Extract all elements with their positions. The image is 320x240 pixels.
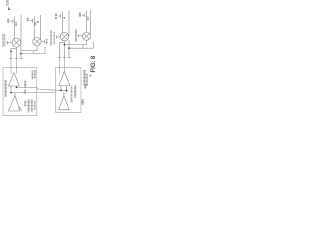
amplifier triangle T3 — [59, 72, 70, 86]
transistor Q3 label — [55, 14, 57, 16]
W6 riser — [92, 43, 94, 49]
wire W6 — [69, 47, 93, 49]
rail from Q1 to mixer M1 — [20, 15, 22, 43]
mixer M3 output stem — [64, 41, 66, 57]
T1 output stub b — [16, 86, 18, 87]
box A1 mid label lower — [24, 90, 26, 95]
terminal bar mid — [63, 57, 66, 59]
rail from Q2 to mixer M2 — [40, 15, 42, 40]
mixer M3 X — [62, 34, 68, 40]
junction dot — [16, 87, 18, 89]
amplifier triangle T4 — [59, 96, 70, 110]
mixer M1 input wire — [7, 42, 12, 44]
wire W1 — [21, 50, 37, 52]
mixer M2 X — [34, 39, 40, 45]
label 100 leader arrow — [8, 6, 10, 10]
box A1 bottom label col3 — [31, 100, 33, 113]
mixer M3 input terminal bar — [55, 35, 57, 38]
amplifier box A2 — [56, 68, 81, 113]
transistor Q4 channel — [86, 11, 88, 33]
box A1 left label — [5, 80, 7, 97]
mixer M4 input wire — [79, 35, 83, 37]
junction dot on rail — [20, 53, 22, 55]
transistor Q1 gate lead — [10, 20, 13, 22]
transistor Q3 source tick — [63, 17, 65, 19]
W2 terminal tick — [44, 47, 46, 49]
rail from Q3 to mixer M3 — [68, 11, 70, 37]
junction dot — [60, 90, 62, 92]
box A1 mid label upper — [24, 81, 26, 89]
amplifier box A1 — [3, 68, 37, 116]
branch vertical — [10, 48, 12, 58]
small label right of box — [84, 84, 86, 88]
terminal bar rail — [20, 58, 23, 60]
Q2 tick label — [34, 23, 36, 26]
Q4 tick label — [87, 18, 89, 21]
transistor Q4 gate bar — [84, 13, 86, 17]
mixer M2 terminal bar — [44, 40, 46, 44]
box A1 upper-right label col1 — [32, 71, 34, 80]
transistor Q4 gate lead — [82, 14, 85, 16]
stem branch horizontal — [11, 47, 17, 49]
mixer M4 circle — [82, 32, 90, 40]
wire W2 — [21, 53, 45, 55]
wire W5 — [65, 44, 87, 46]
mixer M4 X — [84, 33, 90, 39]
svg-text:FIG. 8: FIG. 8 — [91, 55, 96, 72]
mixer M4 input label — [75, 29, 77, 42]
amplifier triangle T1 — [9, 73, 20, 87]
svg-text:100: 100 — [6, 0, 10, 5]
junction dot — [10, 50, 12, 52]
target beacon label col1 — [83, 70, 85, 85]
junction dot — [10, 92, 12, 94]
transistor Q1 label — [7, 19, 9, 23]
mixer M1 X — [13, 40, 19, 46]
W6 terminal tick — [93, 42, 95, 44]
mixer M1 circle — [12, 38, 21, 47]
mixer M3 input wire — [56, 36, 60, 38]
box A1 input wire a — [10, 59, 12, 74]
mixer M1 output stem — [16, 47, 18, 58]
transistor Q4 source tick — [87, 16, 89, 18]
box A1 bottom label col2 — [28, 100, 30, 113]
small mark below FIG. 8 — [90, 75, 92, 77]
W1 jog — [33, 51, 35, 54]
mixer M3 input label — [50, 30, 52, 46]
box A1 upper-right label col2 — [34, 70, 36, 78]
transistor Q1 source tick — [15, 22, 18, 24]
rail from Q4 to mixer M4 — [90, 10, 92, 34]
wire W4 lower interstage — [11, 92, 56, 94]
transistor Q2 gate lead — [29, 20, 32, 22]
mixer M2 circle — [33, 37, 41, 45]
T3 output stub a — [60, 86, 62, 91]
mixer M3 circle — [60, 32, 69, 41]
branch vertical — [59, 42, 61, 57]
triangle T2 input stub — [14, 93, 16, 96]
terminal bar mid — [15, 58, 18, 60]
terminal bar left — [10, 58, 13, 60]
W2 riser — [44, 48, 46, 54]
mixer M1 input label — [2, 33, 3, 47]
mixer M2 terminal label — [46, 39, 48, 44]
T1 output stub a — [10, 86, 12, 93]
transistor Q2 label — [27, 18, 29, 22]
wire W3 upper interstage — [17, 87, 67, 90]
transistor Q3 gate bar — [60, 14, 62, 18]
mixer M4 stem — [86, 40, 88, 44]
T2 output diagonal — [19, 107, 22, 111]
junction dot — [64, 44, 66, 46]
target beacon label col2 — [86, 74, 88, 87]
transistor Q2 gate bar — [32, 19, 34, 23]
terminal bar rail — [68, 57, 71, 59]
box A2 input wire a — [59, 58, 61, 75]
triangle T4 input stub — [63, 92, 65, 96]
stem branch horizontal — [60, 41, 65, 43]
terminal bar left — [58, 57, 61, 59]
box A2 input wire b — [64, 58, 66, 72]
mixer M1 input terminal bar — [6, 41, 8, 44]
mixer M2 stem — [36, 46, 38, 51]
box A2 inner label — [71, 86, 73, 103]
outside bottom-right label — [82, 99, 84, 105]
rail continues below mixer M3 — [68, 40, 70, 57]
W5 jog — [82, 45, 84, 49]
transistor Q4 label — [79, 13, 81, 17]
transistor Q3 channel — [62, 11, 64, 33]
transistor Q2 channel — [33, 16, 35, 39]
junction dot — [66, 90, 68, 92]
junction dot on Q3 tick — [64, 17, 65, 18]
amplifier triangle T2 — [9, 96, 21, 112]
mixer M4 input terminal bar — [78, 34, 80, 37]
rail continues below mixer M1 — [20, 43, 22, 59]
box A1 input wire b — [16, 59, 18, 74]
junction dot on rail — [68, 47, 70, 49]
box A2 inner tick — [72, 100, 73, 102]
transistor Q2 source tick — [34, 21, 38, 23]
transistor Q3 gate lead — [58, 15, 61, 17]
junction dot on Q2 tick — [37, 21, 38, 22]
transistor Q1 gate bar — [12, 19, 14, 23]
box A1 bottom label col1 — [24, 100, 26, 106]
Q1 tick label — [15, 23, 17, 26]
mixer M2 output wire — [41, 41, 44, 43]
T3 output stub b — [66, 86, 68, 93]
transistor Q1 channel — [14, 17, 16, 39]
